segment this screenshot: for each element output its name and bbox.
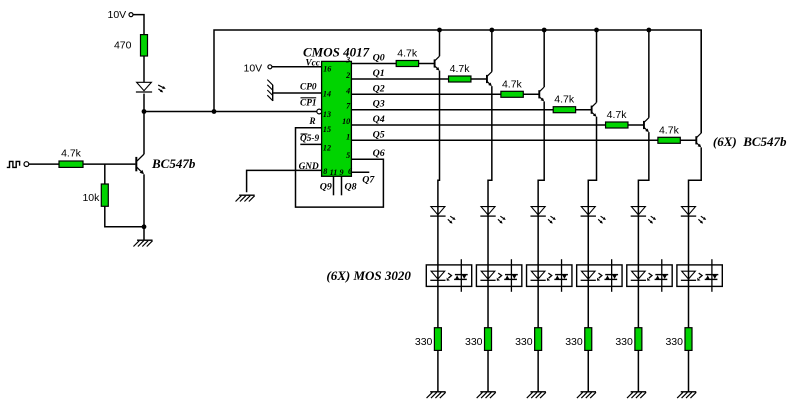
transistor BC547b (ch6) — [696, 133, 701, 147]
svg-text:14: 14 — [323, 89, 331, 98]
optocoupler MOS 3020 (ch3) — [527, 259, 572, 292]
svg-text:330: 330 — [615, 336, 633, 348]
label (6X) MOS 3020 — [326, 268, 411, 283]
svg-text:CP0: CP0 — [300, 83, 317, 93]
pin number 5 — [346, 151, 350, 160]
svg-text:4.7k: 4.7k — [607, 109, 628, 121]
junction rail ch1 — [437, 28, 442, 33]
svg-text:Q0: Q0 — [373, 53, 385, 64]
pin number 3 — [345, 56, 350, 65]
label CP1 (overline) — [300, 98, 317, 109]
label Q3 — [373, 99, 385, 110]
wire emitter ch3 — [538, 101, 544, 391]
transistor BC547b (ch4) — [592, 102, 597, 116]
node A (collector node of left BC547b) — [142, 109, 147, 114]
svg-text:15: 15 — [323, 125, 331, 134]
wire — [523, 93, 539, 95]
LED ch3 — [530, 207, 555, 224]
chassis ground on CP0 — [267, 80, 273, 101]
wire pin14 CP0 — [273, 92, 322, 94]
wire — [29, 163, 59, 165]
svg-text:4.7k: 4.7k — [397, 48, 418, 60]
svg-text:Vcc: Vcc — [306, 57, 320, 67]
svg-text:Q6: Q6 — [373, 148, 385, 159]
svg-text:16: 16 — [323, 65, 332, 74]
svg-text:4.7k: 4.7k — [502, 78, 523, 90]
pin number 2 — [345, 71, 350, 80]
svg-text:Q4: Q4 — [373, 114, 385, 125]
resistor 330 (ch5) — [615, 328, 642, 351]
pin 13 CP1 bubble — [317, 109, 322, 114]
wire — [143, 227, 145, 240]
label Q5-9 (overline) — [300, 134, 319, 144]
wire — [680, 139, 696, 141]
svg-text:470: 470 — [114, 40, 132, 52]
wire emitter ch1 — [438, 71, 440, 392]
label GND — [299, 162, 319, 172]
wire emitter ch6 — [689, 147, 702, 391]
resistor 330 (ch1) — [415, 328, 442, 351]
svg-text:4: 4 — [345, 86, 350, 95]
wire pin15 R / reset loop from Q6 — [296, 128, 384, 207]
svg-text:330: 330 — [465, 336, 483, 348]
pin number 4 — [345, 86, 350, 95]
wire emitter ch5 — [638, 132, 648, 392]
wire — [576, 109, 592, 111]
svg-text:4.7k: 4.7k — [61, 148, 82, 160]
resistor 330 (ch2) — [465, 328, 492, 351]
wire — [144, 111, 317, 113]
svg-text:6: 6 — [348, 167, 353, 176]
pin number 1 — [346, 132, 350, 141]
wire — [143, 94, 145, 112]
resistor 4.7k (ch4) — [553, 94, 575, 113]
optocoupler MOS 3020 (ch5) — [627, 259, 672, 292]
svg-text:Q7: Q7 — [362, 174, 375, 185]
wire collector ch5 — [648, 30, 650, 118]
input terminal — [24, 162, 29, 167]
wire — [143, 56, 145, 82]
resistor 4.7k (ch6) — [658, 124, 680, 143]
wire — [133, 15, 144, 35]
pin number 10 — [342, 117, 350, 126]
svg-text:Q5-9: Q5-9 — [300, 134, 319, 144]
svg-text:4.7k: 4.7k — [659, 124, 680, 136]
svg-text:Q3: Q3 — [373, 99, 385, 110]
svg-text:10: 10 — [342, 117, 350, 126]
resistor R2 4.7k (input) — [59, 148, 83, 168]
svg-text:Q2: Q2 — [373, 83, 385, 94]
wire pin6 Q7 stub — [351, 171, 369, 173]
wire Q1 net — [351, 78, 448, 80]
pin number 11 — [330, 168, 338, 177]
optocoupler MOS 3020 (ch6) — [677, 259, 722, 292]
ground ch3 — [527, 392, 546, 398]
ground ch6 — [677, 392, 696, 398]
wire pin8 GND — [247, 170, 322, 192]
resistor 4.7k (ch2) — [449, 63, 471, 82]
pin number 9 — [340, 168, 344, 177]
optocoupler MOS 3020 (ch2) — [476, 259, 521, 292]
svg-text:(6X) MOS 3020: (6X) MOS 3020 — [326, 268, 411, 283]
transistor BC547b (ch3) — [539, 87, 544, 101]
optocoupler MOS 3020 (ch1) — [426, 259, 471, 292]
svg-text:4.7k: 4.7k — [554, 94, 575, 106]
label Q2 — [373, 83, 385, 94]
ground ch5 — [627, 392, 646, 398]
svg-text:12: 12 — [323, 143, 331, 152]
resistor 330 (ch3) — [515, 328, 542, 351]
IC U1 CMOS 4017 — [322, 61, 352, 176]
wire pin9 stub — [341, 176, 343, 195]
node C (emitter junction of left BC547b) — [142, 224, 147, 229]
LED ch1 — [430, 207, 455, 224]
svg-text:10k: 10k — [82, 192, 100, 204]
wire — [419, 63, 435, 65]
svg-text:330: 330 — [565, 336, 583, 348]
resistor 330 (ch6) — [665, 328, 692, 351]
transistor BC547b (ch2) — [487, 72, 492, 86]
svg-text:Q5: Q5 — [373, 129, 385, 140]
svg-text:GND: GND — [299, 162, 319, 172]
ground (chip GND) — [236, 195, 255, 201]
label CP0 — [300, 83, 317, 93]
svg-text:330: 330 — [665, 336, 683, 348]
resistor 330 (ch4) — [565, 328, 592, 351]
svg-text:330: 330 — [415, 336, 433, 348]
junction rail ch2 — [489, 28, 494, 33]
wire — [628, 124, 644, 126]
svg-text:2: 2 — [345, 71, 350, 80]
ground ch2 — [477, 392, 496, 398]
optocoupler MOS 3020 (ch4) — [577, 259, 622, 292]
svg-text:13: 13 — [323, 110, 331, 119]
wire pin11 stub — [333, 176, 335, 195]
wire Q2 net — [351, 93, 500, 95]
svg-text:R: R — [308, 117, 315, 127]
resistor R3 10k — [82, 184, 108, 206]
svg-text:Q8: Q8 — [345, 182, 357, 193]
svg-text:5: 5 — [346, 151, 350, 160]
pin number 14 — [323, 89, 331, 98]
pin number 12 — [323, 143, 331, 152]
wire Q3 net — [351, 109, 553, 111]
resistor 4.7k (ch1) — [396, 48, 418, 67]
label Q9 — [320, 182, 332, 193]
label CMOS 4017 — [303, 45, 370, 60]
junction rail ch5 — [646, 28, 651, 33]
svg-text:11: 11 — [330, 168, 338, 177]
wire — [104, 164, 106, 184]
pin number 8 — [323, 167, 327, 176]
wire emitter ch4 — [588, 117, 596, 392]
svg-text:(6X) BC547b: (6X) BC547b — [713, 134, 787, 149]
wire collector ch1 — [439, 30, 441, 56]
junction rail ch4 — [594, 28, 599, 33]
wire collector ch4 — [596, 30, 598, 102]
transistor BC547b (ch1) — [435, 56, 440, 70]
wire Q5 net — [351, 139, 658, 141]
ground (left transistor emitter) — [133, 240, 152, 246]
ground ch4 — [577, 392, 596, 398]
svg-text:Q9: Q9 — [320, 182, 332, 193]
svg-text:330: 330 — [515, 336, 533, 348]
wire — [143, 112, 145, 155]
wire collector ch3 — [543, 30, 545, 87]
wire — [105, 206, 144, 227]
transistor BC547b (ch5) — [644, 118, 649, 132]
square wave input symbol — [7, 161, 20, 167]
transistor Q1 BC547b (left) — [136, 154, 144, 174]
label Q8 — [345, 182, 357, 193]
10V supply terminal (left oscillator) — [108, 9, 134, 21]
label Q4 — [373, 114, 385, 125]
10V supply terminal (Vcc) — [244, 63, 272, 75]
pin number 6 — [348, 167, 353, 176]
wire Q4 net — [351, 124, 605, 126]
label Q1 — [373, 68, 385, 79]
LED ch4 — [581, 207, 606, 224]
resistor 4.7k (ch5) — [606, 109, 628, 128]
label Q7 — [362, 174, 375, 185]
label Vcc — [306, 57, 320, 67]
node B (10V rail riser junction) — [212, 109, 217, 114]
resistor R1 470 — [114, 35, 148, 56]
wire — [83, 163, 135, 165]
wire collector ch6 — [700, 30, 702, 133]
label Q6 — [373, 148, 385, 159]
pin number 13 — [323, 110, 331, 119]
pin number 15 — [323, 125, 331, 134]
svg-text:3: 3 — [345, 56, 350, 65]
svg-text:1: 1 — [346, 132, 350, 141]
pin number 7 — [346, 102, 351, 111]
wire pin12 Q5-9 stub — [300, 143, 321, 145]
svg-text:8: 8 — [323, 167, 327, 176]
label Q0 — [373, 53, 385, 64]
wire — [143, 174, 145, 227]
wire Q0 net — [351, 63, 396, 65]
LED D1 — [136, 82, 166, 92]
label BC547b — [151, 156, 196, 171]
resistor 4.7k (ch3) — [501, 78, 523, 97]
wire collector ch2 — [491, 30, 493, 72]
svg-text:BC547b: BC547b — [151, 156, 196, 171]
junction rail ch3 — [542, 28, 547, 33]
label (6X) BC547b — [713, 134, 787, 149]
svg-text:CP1: CP1 — [300, 98, 317, 108]
LED ch2 — [480, 207, 505, 224]
wire pin16 Vcc — [272, 66, 322, 68]
LED ch5 — [631, 207, 656, 224]
wire 10V rail — [214, 30, 701, 133]
svg-text:10V: 10V — [244, 63, 263, 75]
ground ch1 — [427, 392, 446, 398]
pin number 16 — [323, 65, 332, 74]
label Q5 — [373, 129, 385, 140]
wire emitter ch2 — [488, 86, 492, 392]
svg-text:Q1: Q1 — [373, 68, 385, 79]
svg-text:4.7k: 4.7k — [450, 63, 471, 75]
LED ch6 — [681, 207, 706, 224]
svg-text:9: 9 — [340, 168, 344, 177]
wire — [471, 78, 487, 80]
svg-text:10V: 10V — [108, 9, 127, 21]
label R — [308, 117, 315, 127]
